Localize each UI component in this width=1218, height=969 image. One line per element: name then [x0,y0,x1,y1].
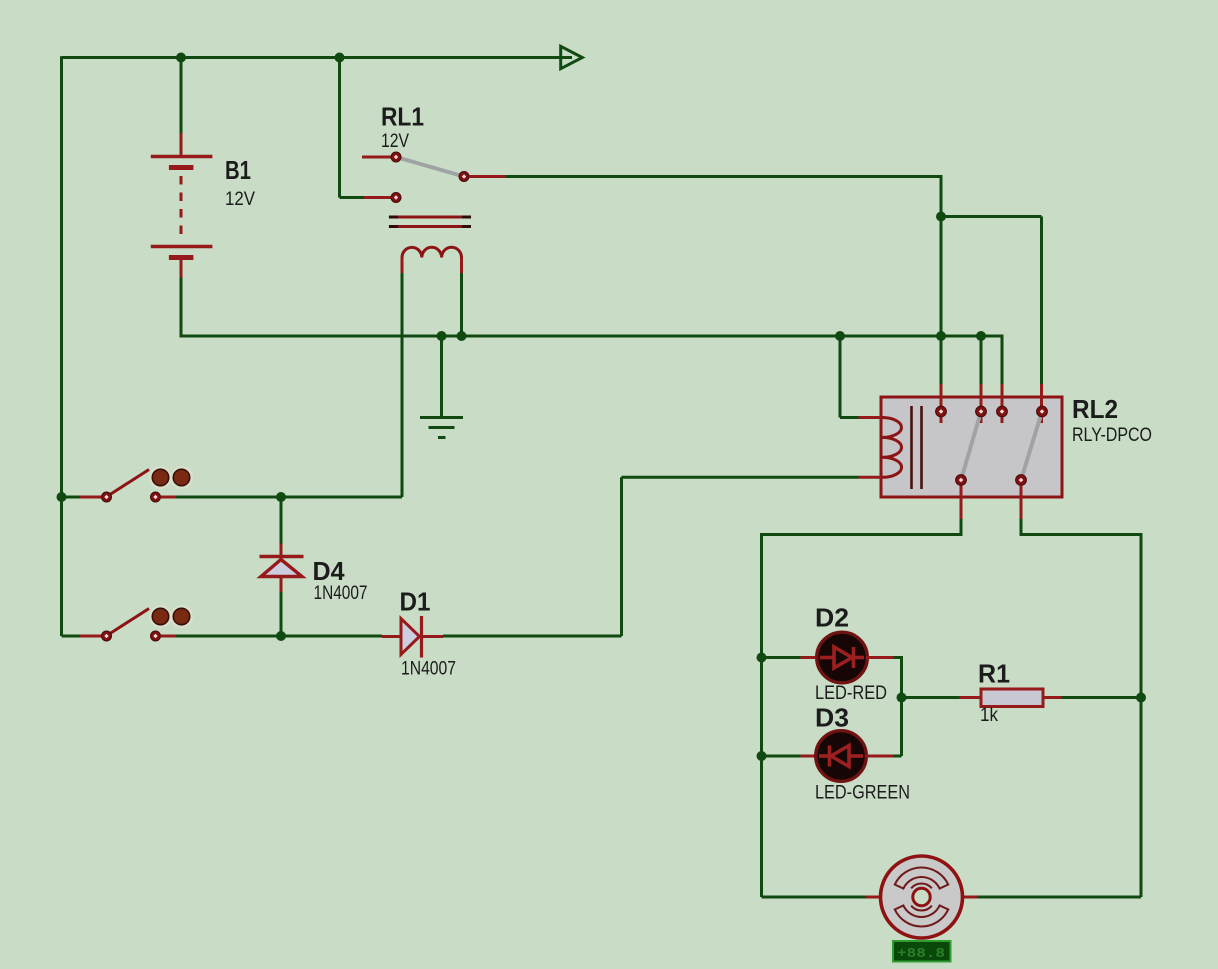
svg-text:RL2: RL2 [1072,394,1118,424]
pin RL2 p1 stub [940,384,943,423]
node R1 left [897,693,907,703]
coil RL1 [402,247,462,257]
blade RL2 a [961,412,981,481]
wire RL2 coil top feed [840,336,859,418]
coil RL2 [883,418,902,478]
terminal arrow [561,46,583,68]
svg-text:RL1: RL1 [381,102,424,132]
svg-text:D2: D2 [815,603,849,633]
blade SW1 [110,470,149,495]
node D4 top [276,492,286,502]
contact SW1 right [151,492,161,502]
relay RL2 [859,384,1063,519]
node LED top [757,653,767,663]
wire pin2 drop [980,336,983,384]
blade RL2 b [1021,412,1042,481]
contact SW2 left [102,631,112,641]
pin RL2 p3 stub [1001,384,1004,423]
pin coil left stub [401,258,404,274]
node bus-pin2 [976,331,986,341]
wire SW1 to coil leg [176,496,402,499]
svg-text:D1: D1 [400,587,431,617]
contact SW1 left [102,492,112,502]
contact RL2 c2 [1016,475,1027,486]
wire top rail [62,56,573,59]
node RL1 branch [936,212,946,222]
node bus-pin1 [936,331,946,341]
contact RL2 p2 [976,406,987,417]
contact RL1 top [391,152,401,162]
pin RL1 NO stub [469,175,506,178]
svg-text:+88.8: +88.8 [897,947,945,962]
svg-text:RLY-DPCO: RLY-DPCO [1072,425,1152,446]
node SW1 left [57,492,67,502]
node R1 right [1136,693,1146,703]
svg-text:LED-GREEN: LED-GREEN [815,783,910,804]
diode D4 [260,497,304,636]
pin RL1 common stub [364,196,391,199]
diode D1 [382,616,443,658]
dot SW2 b [171,606,192,627]
dot SW1 a [150,467,171,488]
relay RL1 [362,152,506,273]
node D4 bottom [276,631,286,641]
node top-2 [335,53,345,63]
svg-text:LED-RED: LED-RED [815,683,887,704]
switch SW1 [57,467,193,502]
wire battery bottom to bus [180,278,282,337]
svg-text:1N4007: 1N4007 [401,659,456,680]
switch blade RL1 [396,157,464,177]
contact RL2 p4 [1037,406,1048,417]
dot SW2 a [150,606,171,627]
node ground tap [437,331,447,341]
pin RL2 c1 stub [960,486,963,520]
contact RL1 common [391,193,401,203]
svg-text:12V: 12V [381,131,409,152]
shaft [913,888,930,905]
display +88.8 [893,941,951,962]
pin RL2 p4 stub [1040,384,1043,423]
svg-text:D4: D4 [313,556,346,586]
brush bottom [895,905,948,926]
svg-text:D3: D3 [815,703,849,733]
wire horizontal bus y336 [281,335,1002,338]
wire branch to RL2 pin4 [941,217,1042,385]
switch SW2 [62,606,193,641]
LED D3 [762,731,902,782]
brush top [895,867,948,888]
node LED bottom [757,751,767,761]
svg-text:12V: 12V [225,189,255,210]
resistor R1 [902,689,1142,707]
node bus-RL2coil [835,331,845,341]
node top-1 [176,53,186,63]
contact RL1 mid [459,172,469,182]
core RL2 [912,406,922,489]
contact SW2 right [151,631,161,641]
ground [420,418,463,438]
wire RL1 coil right leg [460,273,463,336]
contact RL2 c1 [956,475,967,486]
wire pin1 drop [940,336,943,384]
pin RL1 NC stub [362,156,391,159]
LED D2 [762,632,902,756]
pin coil right stub [460,258,463,274]
blade SW2 [110,609,149,634]
battery B1 [151,133,213,278]
dot SW1 b [171,467,192,488]
coil core RL1 [389,217,471,227]
pin RL2 c2 stub [1020,486,1023,520]
wire RL2 c1 down-left [762,519,963,897]
wire left rail [60,56,63,636]
node coil right [457,331,467,341]
motor M [762,856,1142,938]
wire ground drop [440,336,443,416]
wire D1 to RL2 coil [443,635,622,638]
svg-text:R1: R1 [978,659,1010,689]
wire RL2 c2 down-right [1020,519,1142,897]
wire RL1 coil left leg [401,273,404,497]
wire RL2 coil bottom to D1 [622,477,859,636]
wire pin3 drop [1001,335,1004,385]
pin RL2 p2 stub [980,384,983,423]
contact RL2 p3 [997,406,1008,417]
wire SW2 to D1 [176,635,382,638]
wire RL1 common drop [340,58,365,198]
svg-text:1N4007: 1N4007 [314,583,368,604]
pin RL2 coil bottom stub [859,476,883,479]
pin RL2 coil top stub [859,416,883,419]
wire battery top [180,58,183,134]
svg-text:1k: 1k [980,705,998,726]
contact RL2 p1 [936,406,947,417]
svg-text:B1: B1 [225,155,251,185]
wire RL1 NO to right [506,175,941,336]
